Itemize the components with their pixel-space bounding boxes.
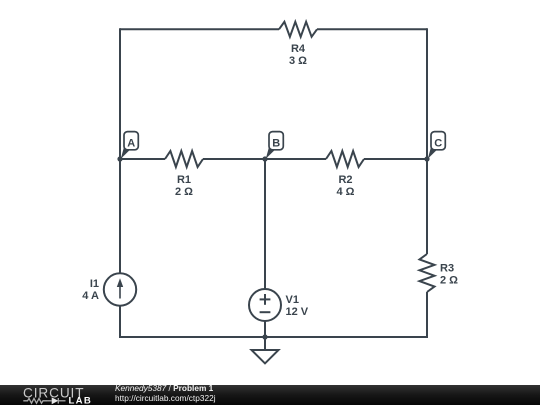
wire left rail upper bbox=[119, 28, 121, 159]
node A junction dot bbox=[117, 156, 122, 161]
node C junction dot bbox=[424, 156, 429, 161]
ground junction dot bbox=[262, 334, 267, 339]
node A flag bbox=[121, 132, 139, 159]
label I1 value bbox=[82, 278, 99, 302]
wire top rail left segment bbox=[120, 28, 279, 30]
label R3 value bbox=[440, 263, 458, 287]
svg-text:2 Ω: 2 Ω bbox=[440, 275, 458, 287]
wire node A down to I1 bbox=[119, 159, 121, 273]
wire V1 to bottom junction bbox=[264, 321, 266, 337]
label R2 value bbox=[337, 174, 355, 198]
ground bbox=[252, 337, 279, 363]
resistor R1 bbox=[165, 151, 203, 167]
wire right rail upper bbox=[426, 28, 428, 159]
node C flag bbox=[428, 132, 446, 159]
wire top rail right segment bbox=[317, 28, 427, 30]
svg-text:4 A: 4 A bbox=[82, 290, 99, 302]
svg-text:LAB: LAB bbox=[69, 396, 93, 406]
wire node B to R2 bbox=[265, 158, 326, 160]
wire node B down to V1 bbox=[264, 159, 266, 289]
credit text bbox=[115, 384, 216, 403]
label V1 value bbox=[286, 294, 309, 318]
wire R1 to node B bbox=[203, 158, 265, 160]
node B junction dot bbox=[262, 156, 267, 161]
wire bottom rail bbox=[119, 336, 428, 338]
svg-text:3 Ω: 3 Ω bbox=[289, 55, 307, 67]
resistor R2 bbox=[326, 151, 364, 167]
node B flag bbox=[266, 132, 284, 159]
wire node C to R3 bbox=[426, 159, 428, 254]
svg-text:I1: I1 bbox=[90, 278, 99, 290]
wire node A to R1 bbox=[120, 158, 165, 160]
CircuitLab logo bbox=[22, 385, 122, 406]
voltage source V1 bbox=[249, 289, 281, 321]
svg-text:2 Ω: 2 Ω bbox=[175, 186, 193, 198]
current source I1 bbox=[104, 273, 136, 305]
svg-text:4 Ω: 4 Ω bbox=[337, 186, 355, 198]
svg-text:R1: R1 bbox=[177, 174, 191, 186]
svg-text:C: C bbox=[434, 137, 442, 149]
footer bar bbox=[0, 385, 540, 406]
svg-text:R3: R3 bbox=[440, 263, 454, 275]
wire R2 to node C bbox=[364, 158, 427, 160]
svg-text:R2: R2 bbox=[338, 174, 352, 186]
wire I1 to bottom left corner bbox=[119, 306, 121, 338]
resistor R3 bbox=[420, 254, 435, 292]
svg-text:12 V: 12 V bbox=[286, 306, 309, 318]
svg-text:R4: R4 bbox=[291, 43, 306, 55]
svg-text:A: A bbox=[127, 137, 135, 149]
label R1 value bbox=[175, 174, 193, 198]
resistor R4 bbox=[279, 22, 317, 37]
wire R3 to bottom right corner bbox=[426, 292, 428, 338]
svg-text:B: B bbox=[272, 137, 280, 149]
label R4 value bbox=[289, 43, 307, 67]
svg-text:V1: V1 bbox=[286, 294, 299, 306]
